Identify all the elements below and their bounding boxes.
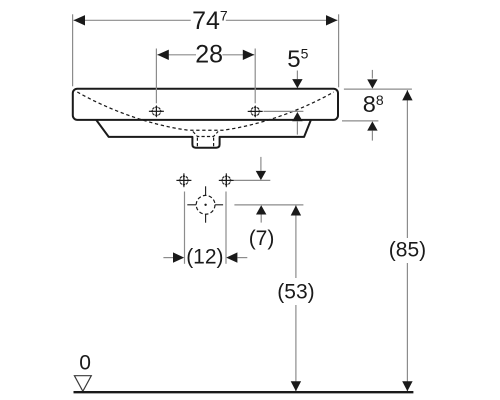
svg-text:28: 28: [195, 41, 223, 69]
dimension 74.7 line: [74, 15, 338, 25]
left mounting hole crosshair: [176, 173, 191, 187]
dashed bowl interior curve: [77, 92, 333, 130]
drain recess hidden dashed taper: [193, 132, 218, 137]
datum triangle symbol: [74, 376, 91, 392]
dimension 5.5 upper arrow pointing down at rim: [292, 71, 302, 89]
dimension 5.5 lower arrow pointing up at faucet axis: [292, 112, 302, 135]
dimension (53) vertical line: [275, 205, 318, 391]
floor baseline: [74, 391, 414, 393]
svg-text:(7): (7): [249, 227, 275, 250]
dimension 8.8 top extension line: [344, 88, 412, 90]
dimension (85) vertical line: [386, 90, 429, 391]
dimension (12) extension line left: [184, 192, 186, 264]
drain hidden dashed line right: [213, 138, 215, 147]
dimension 28 line: [157, 50, 254, 60]
dimension (12) left arrow pointing right: [163, 252, 184, 262]
dimension (12) extension line right: [225, 192, 227, 264]
svg-text:(12): (12): [186, 245, 223, 268]
dimension 28 extension line left: [155, 49, 157, 104]
left faucet hole crosshair: [149, 105, 164, 118]
drain hidden dashed line left: [196, 138, 198, 147]
drain axis extension line: [234, 204, 303, 206]
dimension (7) upper arrow pointing down: [256, 157, 266, 180]
faucet axis extension line: [264, 110, 304, 112]
washbasin body outline: [73, 89, 338, 120]
dimension 74.7 extension line left: [72, 14, 74, 86]
mounting hole axis extension line: [234, 179, 270, 181]
svg-text:(53): (53): [277, 280, 314, 303]
dimension 8.8 bottom extension line: [342, 120, 378, 122]
dimension 8.8 lower arrow pointing up: [367, 121, 377, 140]
washbasin pedestal/apron outline: [96, 120, 311, 148]
right mounting hole crosshair: [219, 173, 234, 187]
svg-text:(85): (85): [389, 239, 426, 262]
dimension 74.7 extension line right: [338, 14, 340, 87]
svg-text:0: 0: [79, 351, 91, 374]
dimension 8.8 upper arrow pointing down: [367, 70, 377, 89]
right faucet hole crosshair: [248, 105, 263, 118]
drain/overflow dashed circle with centermark: [187, 186, 223, 222]
dimension 28 extension line right: [254, 49, 256, 104]
dimension (7) lower arrow pointing up: [256, 205, 266, 222]
dimension (12) right arrow pointing left: [226, 252, 247, 262]
